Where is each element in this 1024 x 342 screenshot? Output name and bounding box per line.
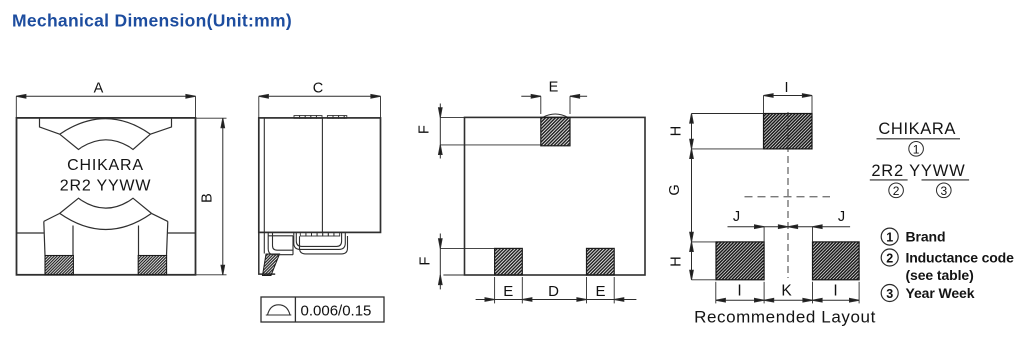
svg-text:2R2 YYWW: 2R2 YYWW xyxy=(60,178,152,195)
legend item 2 circle xyxy=(881,249,898,266)
svg-text:I: I xyxy=(784,80,788,96)
svg-text:E: E xyxy=(549,80,559,96)
lead end cap xyxy=(268,236,293,255)
svg-text:B: B xyxy=(200,193,216,203)
svg-text:C: C xyxy=(313,81,323,97)
svg-text:F: F xyxy=(418,256,434,265)
svg-text:1: 1 xyxy=(886,230,893,244)
dimension I top xyxy=(764,94,813,114)
flatness symbol xyxy=(266,305,292,315)
legend item 1 circle xyxy=(881,228,898,245)
lower left wall extension xyxy=(259,232,275,274)
winding turns top row xyxy=(294,116,347,119)
svg-text:E: E xyxy=(595,283,605,300)
svg-text:Recommended Layout: Recommended Layout xyxy=(694,308,876,327)
top pad dome xyxy=(543,114,569,117)
svg-text:K: K xyxy=(781,283,792,300)
dimension H top xyxy=(690,114,764,149)
right leg xyxy=(139,221,168,255)
svg-text:Mechanical Dimension(Unit:mm): Mechanical Dimension(Unit:mm) xyxy=(12,11,292,31)
svg-text:3: 3 xyxy=(886,287,893,301)
layout bottom left pad xyxy=(716,242,764,280)
bottom left pad hatched xyxy=(495,248,523,275)
svg-text:D: D xyxy=(548,283,559,300)
center line horizontal dashed xyxy=(745,196,831,198)
svg-text:J: J xyxy=(733,209,740,225)
dimension A line xyxy=(16,95,195,118)
labels I K I xyxy=(737,283,837,300)
dimension F bottom xyxy=(439,234,495,290)
terminal foot hatched xyxy=(263,254,280,276)
inner left wall xyxy=(263,118,265,254)
lead bend U3 xyxy=(300,236,348,254)
legend item 3 circle xyxy=(881,285,898,302)
dimension I K I bottom xyxy=(716,282,859,304)
svg-text:3: 3 xyxy=(940,184,947,198)
front view body outline xyxy=(17,118,196,275)
svg-text:0.006/0.15: 0.006/0.15 xyxy=(301,303,372,320)
svg-text:H: H xyxy=(669,126,685,136)
underline 2R2 xyxy=(870,179,908,181)
page title xyxy=(12,11,292,31)
lead bend U2 inner xyxy=(296,232,341,246)
dimension B line xyxy=(196,118,227,275)
dimension E top xyxy=(521,95,587,115)
svg-text:H: H xyxy=(669,256,685,266)
svg-text:E: E xyxy=(503,283,513,300)
svg-text:(see table): (see table) xyxy=(906,267,974,283)
svg-text:I: I xyxy=(737,283,741,300)
layout top pad xyxy=(764,114,813,149)
underline brand xyxy=(877,138,961,140)
circled 2 under code xyxy=(889,183,904,198)
dimension C line xyxy=(259,95,381,118)
top winding arcs xyxy=(40,118,172,150)
front view inner step lines xyxy=(17,232,196,234)
dimension G xyxy=(690,149,716,242)
svg-text:CHIKARA: CHIKARA xyxy=(878,120,956,138)
svg-text:A: A xyxy=(94,81,104,97)
flatness spec box xyxy=(261,297,384,322)
lead bend U1 outer xyxy=(268,232,293,254)
svg-text:1: 1 xyxy=(913,142,920,156)
right terminal pad hatched xyxy=(138,256,166,275)
svg-text:CHIKARA: CHIKARA xyxy=(67,157,144,174)
bottom winding arcs xyxy=(44,198,168,229)
winding turns bottom row xyxy=(300,232,339,236)
dimension F top xyxy=(439,104,541,159)
center split line xyxy=(321,118,323,232)
left leg xyxy=(44,221,73,255)
underline YYWW xyxy=(922,179,970,181)
svg-text:F: F xyxy=(417,125,433,134)
circled 1 under brand xyxy=(909,142,924,157)
svg-text:J: J xyxy=(838,209,845,225)
dimension E D E bottom xyxy=(476,277,637,303)
svg-text:2: 2 xyxy=(886,251,893,265)
svg-text:Brand: Brand xyxy=(906,229,946,245)
lead bend U2 outer xyxy=(294,232,346,249)
lead bend U1 inner xyxy=(273,232,294,250)
dimension H bottom xyxy=(690,242,716,280)
svg-text:G: G xyxy=(667,184,683,195)
side view body xyxy=(259,118,381,232)
svg-text:2: 2 xyxy=(893,184,900,198)
center line vertical dashed xyxy=(787,112,789,278)
layout bottom right pad xyxy=(813,242,860,280)
circled 3 under code xyxy=(937,183,952,198)
svg-text:I: I xyxy=(833,283,837,300)
svg-text:Year Week: Year Week xyxy=(906,285,975,301)
labels E D E xyxy=(503,283,605,300)
top pad hatched xyxy=(541,117,570,145)
left terminal pad hatched xyxy=(45,256,73,275)
dimension J xyxy=(728,225,851,242)
labels J J xyxy=(733,209,845,225)
svg-text:2R2 YYWW: 2R2 YYWW xyxy=(871,162,965,180)
bottom right pad hatched xyxy=(587,248,615,275)
marking text on body xyxy=(60,157,152,195)
svg-text:Inductance code: Inductance code xyxy=(906,250,1015,266)
bottom view outline xyxy=(465,117,646,275)
